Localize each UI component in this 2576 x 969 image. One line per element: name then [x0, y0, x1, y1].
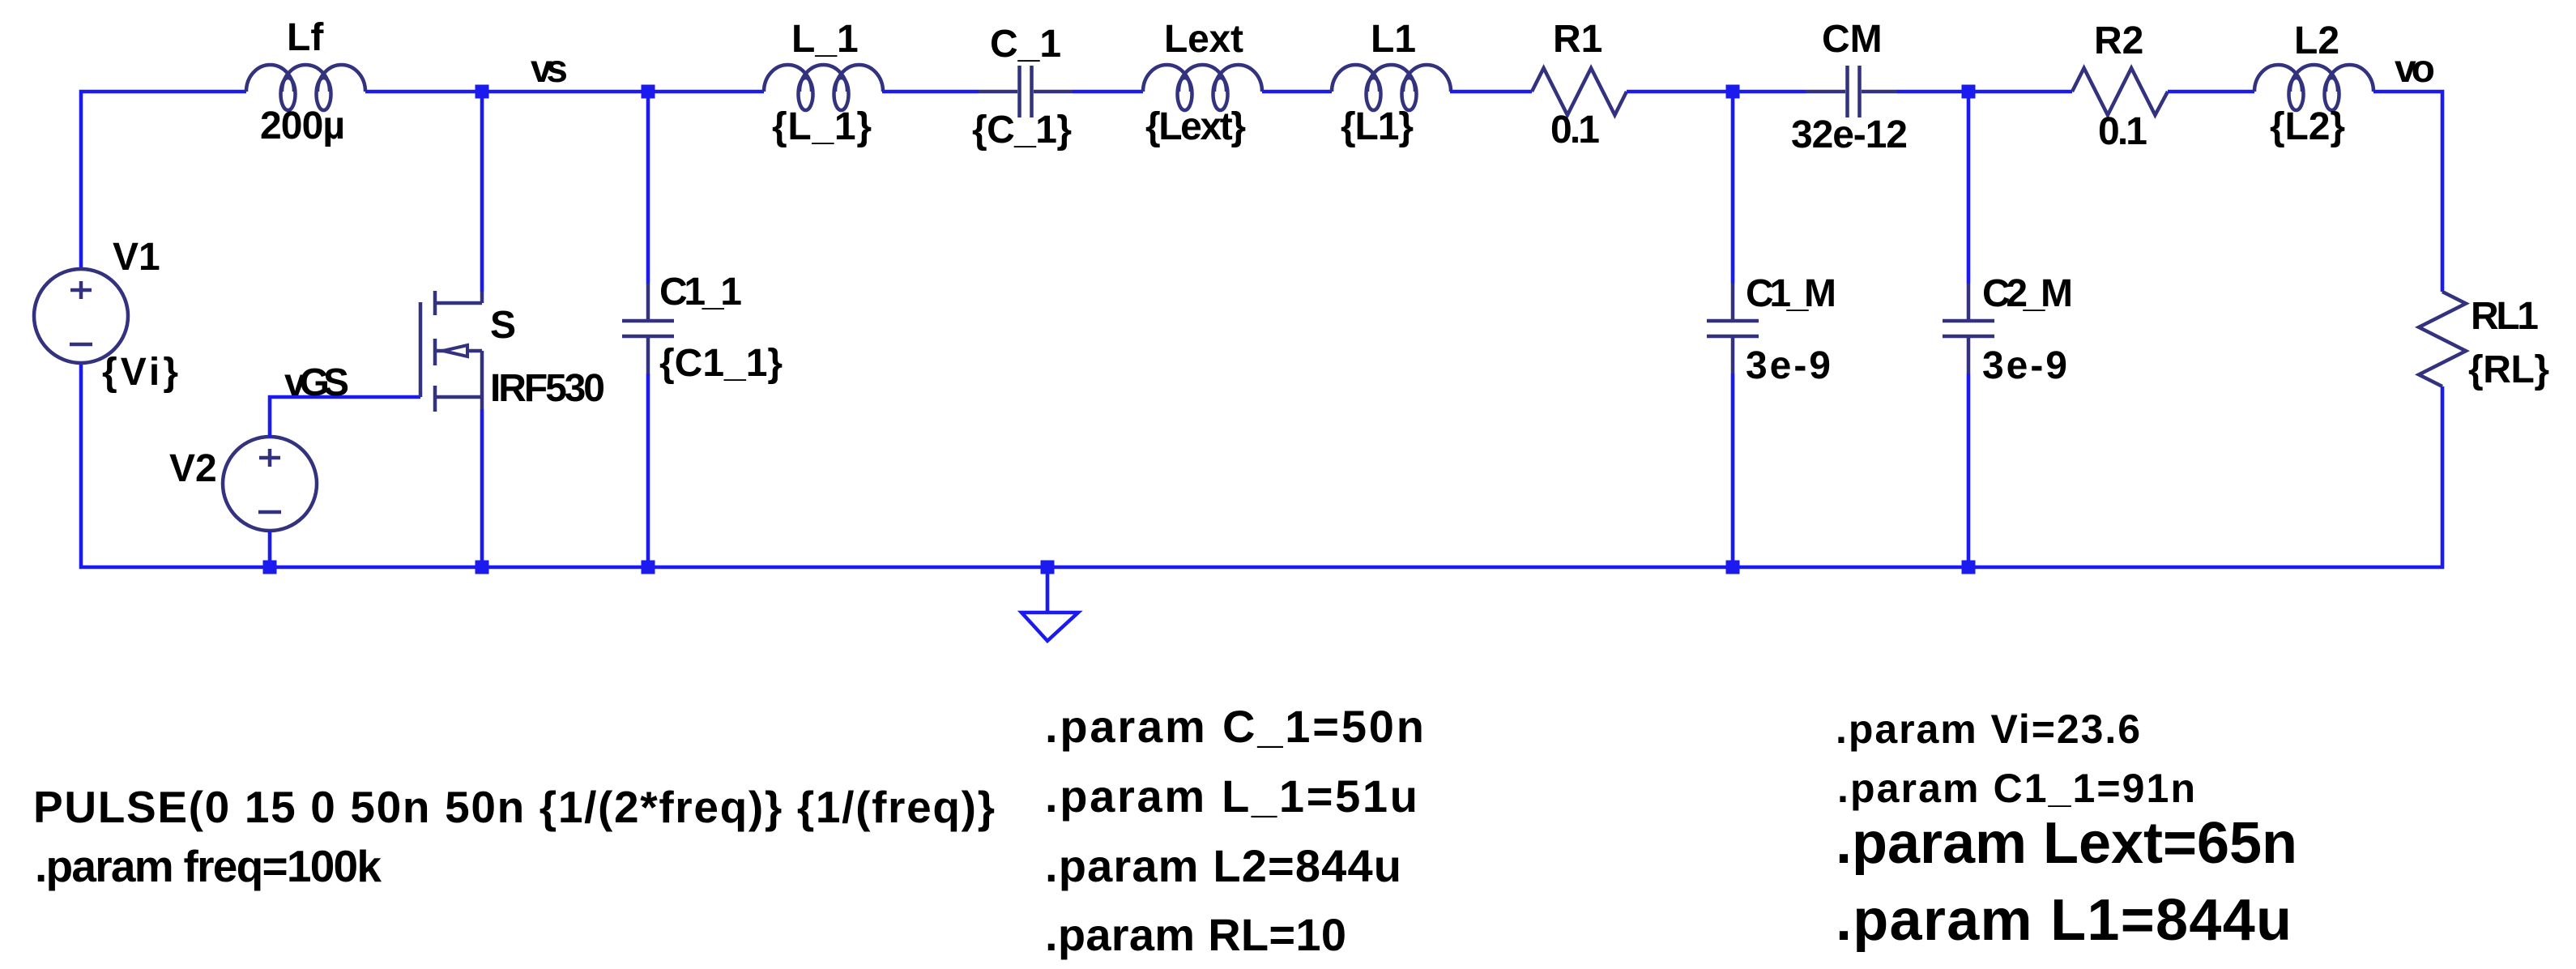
svg-text:.param freq=100k: .param freq=100k: [35, 841, 382, 891]
inductor Lext: [1143, 65, 1262, 110]
svg-text:vGS: vGS: [284, 361, 349, 404]
junction C2_M top: [1962, 85, 1976, 99]
svg-text:.param Lext=65n: .param Lext=65n: [1836, 811, 2297, 876]
transistor M1 IRF530: [420, 291, 482, 412]
value {Vi}: [102, 351, 178, 394]
value 32e-12: [1791, 113, 1908, 156]
inductor Lf: [246, 65, 365, 110]
label C2_M: [1982, 272, 2073, 315]
wire C1_M branch bottom: [1731, 374, 1735, 567]
svg-text:3e-9: 3e-9: [1982, 344, 2067, 387]
wire MOSFET drain from vs rail: [480, 92, 484, 292]
svg-text:V1: V1: [113, 236, 160, 279]
capacitor CM: [1806, 66, 1897, 117]
svg-text:0.1: 0.1: [1550, 109, 1600, 152]
svg-text:{L2}: {L2}: [2270, 105, 2345, 148]
svg-text:.param Vi=23.6: .param Vi=23.6: [1836, 706, 2140, 752]
wire C1_1 branch bottom: [646, 374, 650, 567]
capacitor C_1: [979, 66, 1073, 117]
wire R2 to L2: [2168, 90, 2254, 94]
voltage source V1: [34, 269, 128, 363]
wire Lext to L1: [1262, 90, 1332, 94]
wire V2 bottom stub: [268, 531, 272, 567]
voltage source V2: [223, 437, 317, 531]
junction MOSFET bottom: [476, 561, 489, 574]
svg-text:{Lext}: {Lext}: [1145, 105, 1246, 148]
resistor RL1: [2419, 292, 2466, 386]
value {C_1}: [972, 109, 1072, 152]
node vo: [2395, 48, 2435, 91]
directive .param freq: [35, 841, 382, 891]
junction C1_1 bottom: [642, 561, 655, 574]
svg-text:L1: L1: [1371, 18, 1416, 61]
wire L2 to right corner down to RL1: [2373, 92, 2442, 292]
directive .param RL: [1045, 909, 1346, 960]
wire CM to R2: [1897, 90, 2072, 94]
value 3e-9 C2_M: [1982, 344, 2067, 387]
label L2: [2294, 19, 2339, 62]
inductor L2: [2254, 65, 2373, 110]
label L_1: [791, 18, 859, 61]
junction C1_M top: [1726, 85, 1740, 99]
capacitor C1_M: [1707, 284, 1759, 374]
svg-text:L_1: L_1: [791, 18, 859, 61]
label C1_M: [1746, 272, 1836, 315]
wire C1_1 branch top: [646, 92, 650, 284]
value {RL}: [2468, 348, 2549, 391]
svg-text:{Vi}: {Vi}: [102, 351, 178, 394]
svg-text:{RL}: {RL}: [2468, 348, 2549, 391]
svg-text:{L1}: {L1}: [1341, 105, 1414, 148]
svg-text:{L_1}: {L_1}: [772, 105, 872, 148]
label Lext: [1164, 18, 1243, 61]
svg-text:3e-9: 3e-9: [1746, 344, 1831, 387]
svg-text:vo: vo: [2395, 48, 2435, 91]
inductor L1: [1332, 65, 1451, 110]
directive .param Vi: [1836, 706, 2140, 752]
svg-text:S: S: [490, 304, 516, 347]
svg-text:RL1: RL1: [2471, 295, 2539, 338]
wire R1 to CM: [1627, 90, 1806, 94]
svg-text:C2_M: C2_M: [1982, 272, 2073, 315]
junction ground: [1041, 561, 1055, 574]
value {Lext}: [1145, 105, 1246, 148]
svg-text:200µ: 200µ: [260, 105, 345, 147]
wire C2_M branch bottom: [1967, 374, 1971, 567]
svg-text:C1_1: C1_1: [659, 271, 742, 314]
svg-text:CM: CM: [1822, 18, 1883, 61]
svg-text:.param L2=844u: .param L2=844u: [1045, 840, 1401, 891]
wire RL1 to bottom right corner: [81, 363, 2442, 567]
wire L_1 to C_1: [882, 90, 979, 94]
junction C2_M bottom: [1962, 561, 1976, 574]
svg-text:.param L1=844u: .param L1=844u: [1836, 888, 2292, 953]
directive PULSE: [33, 782, 995, 832]
junction V2 bottom: [263, 561, 277, 574]
node vGS: [284, 361, 349, 404]
value IRF530: [490, 367, 605, 410]
directive .param C1_1: [1837, 766, 2195, 811]
svg-text:{C_1}: {C_1}: [972, 109, 1072, 152]
label V2: [169, 447, 217, 490]
svg-text:vs: vs: [531, 48, 568, 91]
label Lf: [287, 16, 324, 59]
label V1: [113, 236, 160, 279]
junction C1_1 top: [642, 85, 655, 99]
svg-text:32e-12: 32e-12: [1791, 113, 1908, 156]
label L1: [1371, 18, 1416, 61]
svg-text:0.1: 0.1: [2098, 110, 2147, 153]
svg-text:.param C_1=50n: .param C_1=50n: [1045, 701, 1424, 752]
svg-text:R1: R1: [1553, 18, 1602, 61]
directive .param C_1: [1045, 701, 1424, 752]
wire top rail left from V1 to Lf: [81, 92, 246, 269]
junction vs: [476, 85, 489, 99]
resistor R2: [2072, 68, 2168, 115]
svg-text:R2: R2: [2094, 19, 2143, 62]
wire V2 top to gate vGS: [270, 397, 420, 437]
label R1: [1553, 18, 1602, 61]
directive .param L1: [1836, 888, 2292, 953]
label R2: [2094, 19, 2143, 62]
label RL1: [2471, 295, 2539, 338]
value {C1_1}: [659, 342, 783, 385]
svg-text:PULSE(0 15 0 50n 50n {1/(2*fre: PULSE(0 15 0 50n 50n {1/(2*freq)} {1/(fr…: [33, 782, 995, 832]
wire C_1 to Lext: [1073, 90, 1143, 94]
directive .param L_1: [1045, 771, 1418, 822]
node vs: [531, 48, 568, 91]
value 0.1 R2: [2098, 110, 2147, 153]
ground: [1021, 567, 1078, 641]
svg-text:{C1_1}: {C1_1}: [659, 342, 783, 385]
inductor L_1: [764, 65, 883, 110]
wire C2_M branch top: [1967, 92, 1971, 284]
directive .param L2: [1045, 840, 1401, 891]
resistor R1: [1532, 68, 1627, 115]
svg-text:Lext: Lext: [1164, 18, 1243, 61]
value {L_1}: [772, 105, 872, 148]
directive .param Lext: [1836, 811, 2297, 876]
junction top rail MOSFET: [476, 85, 489, 99]
svg-text:C_1: C_1: [990, 23, 1061, 66]
svg-text:Lf: Lf: [287, 16, 324, 59]
svg-text:IRF530: IRF530: [490, 367, 605, 410]
junction C1_M bottom: [1726, 561, 1740, 574]
capacitor C1_1: [622, 284, 674, 374]
wire L1 to R1: [1450, 90, 1532, 94]
label CM: [1822, 18, 1883, 61]
value {L1}: [1341, 105, 1414, 148]
svg-text:V2: V2: [169, 447, 217, 490]
svg-text:.param RL=10: .param RL=10: [1045, 909, 1346, 960]
value 3e-9 C1_M: [1746, 344, 1831, 387]
svg-text:.param C1_1=91n: .param C1_1=91n: [1837, 766, 2195, 811]
svg-text:L2: L2: [2294, 19, 2339, 62]
svg-text:.param L_1=51u: .param L_1=51u: [1045, 771, 1418, 822]
wire top rail Lf to L_1: [365, 90, 764, 94]
wire MOSFET source to bottom rail: [480, 409, 484, 567]
value 0.1 R1: [1550, 109, 1600, 152]
wire C1_M branch top: [1731, 92, 1735, 284]
value 200µ: [260, 105, 345, 147]
value {L2}: [2270, 105, 2345, 148]
label C_1: [990, 23, 1061, 66]
label S: [490, 304, 516, 347]
label C1_1: [659, 271, 742, 314]
capacitor C2_M: [1943, 284, 1994, 374]
svg-text:C1_M: C1_M: [1746, 272, 1836, 315]
